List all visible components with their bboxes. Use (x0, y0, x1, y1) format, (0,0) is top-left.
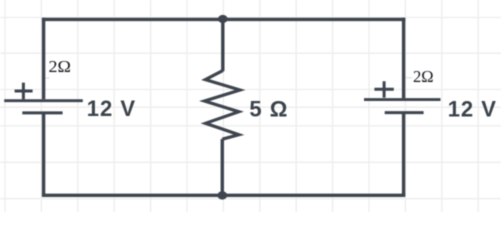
battery V2 short plate (385, 111, 424, 114)
wire right upper (402, 18, 405, 99)
wire right lower (402, 113, 405, 195)
node bottom junction dot (217, 191, 227, 199)
battery V2 long plate (364, 98, 441, 101)
battery V1 long plate (4, 99, 83, 102)
svg-text:5 Ω: 5 Ω (249, 96, 288, 121)
svg-text:2Ω: 2Ω (49, 57, 71, 76)
wire middle lower (221, 139, 224, 195)
node top junction dot (218, 15, 228, 23)
wire left lower (42, 114, 45, 196)
battery V1 short plate (22, 111, 62, 114)
battery V1 plus sign (15, 83, 33, 100)
wire middle upper (221, 19, 224, 71)
wire left upper (42, 18, 45, 100)
svg-text:12 V: 12 V (448, 96, 497, 121)
leader line left (46, 77, 50, 79)
wire bottom (42, 194, 405, 197)
wire top (42, 18, 405, 21)
svg-text:2Ω: 2Ω (413, 67, 434, 86)
leader line right (406, 77, 413, 79)
battery V2 plus sign (374, 81, 393, 97)
resistor R 5 ohm (205, 71, 241, 140)
svg-text:12 V: 12 V (87, 96, 136, 121)
